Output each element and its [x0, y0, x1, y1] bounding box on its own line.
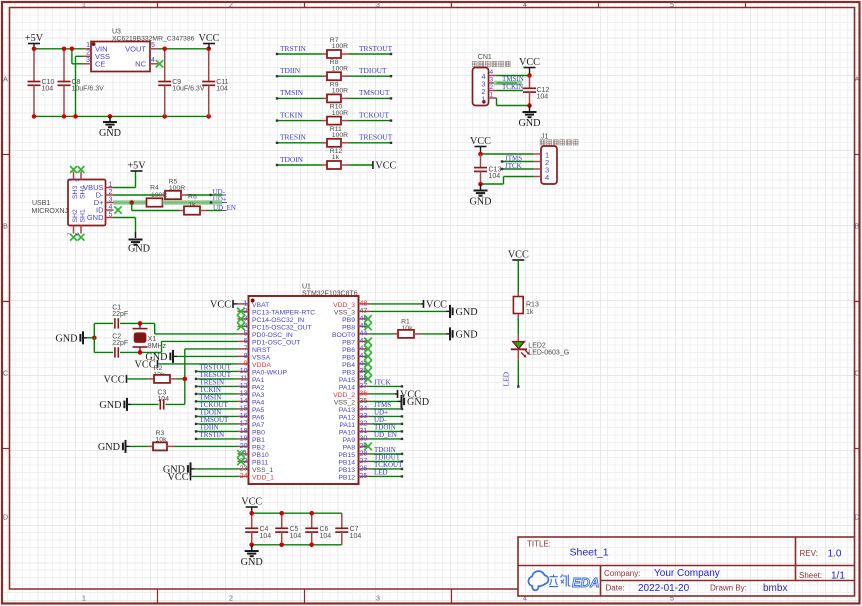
- svg-text:TDIOUT: TDIOUT: [359, 66, 387, 75]
- svg-text:PB8: PB8: [342, 324, 355, 331]
- U1 pin 20 PB2: [238, 445, 249, 447]
- svg-text:VCC: VCC: [241, 496, 262, 507]
- svg-text:VBAT: VBAT: [252, 302, 269, 309]
- node junctions top rail: [32, 47, 37, 52]
- svg-text:PA11: PA11: [339, 422, 355, 429]
- svg-text:17: 17: [240, 421, 248, 428]
- capacitor C9: [164, 49, 166, 82]
- svg-text:LED-0603_G: LED-0603_G: [528, 350, 569, 357]
- svg-text:32: 32: [360, 421, 368, 428]
- svg-text:VCC: VCC: [210, 299, 231, 310]
- svg-text:PB9: PB9: [342, 317, 355, 324]
- svg-text:44: 44: [360, 331, 368, 338]
- svg-text:1: 1: [481, 94, 485, 103]
- svg-text:VCC: VCC: [470, 136, 491, 147]
- svg-text:R6: R6: [188, 193, 197, 200]
- svg-text:8: 8: [244, 353, 248, 360]
- U1 pin 24 VDD_1: [238, 475, 249, 477]
- svg-text:10uF/6.3V: 10uF/6.3V: [72, 86, 105, 93]
- svg-text:VDD_3: VDD_3: [333, 302, 355, 309]
- svg-text:GND: GND: [518, 118, 540, 129]
- svg-text:VSSA: VSSA: [252, 354, 271, 361]
- U1 pin 22 PB11: [238, 460, 249, 462]
- svg-text:16: 16: [240, 413, 248, 420]
- capacitor C10: [33, 49, 35, 82]
- svg-text:SH1: SH1: [80, 209, 87, 222]
- power flag VCC (VDD_2): [370, 393, 396, 395]
- svg-text:GND: GND: [99, 128, 121, 139]
- wire net UD-: [213, 194, 227, 196]
- svg-text:PA7: PA7: [252, 422, 265, 429]
- svg-text:TRSTIN: TRSTIN: [200, 431, 225, 439]
- svg-text:4: 4: [523, 2, 527, 9]
- U1 pin 46 PB9: [359, 318, 370, 320]
- svg-text:8MHz: 8MHz: [148, 343, 167, 350]
- power flag VCC (VDDA): [159, 363, 238, 365]
- U1 pin 11 PA1: [238, 378, 249, 380]
- USB1 pin 3 D+: [106, 202, 114, 204]
- svg-text:TITLE:: TITLE:: [527, 540, 551, 549]
- U3 pin 3 CE: [83, 63, 91, 65]
- wire CE tie to VIN: [71, 49, 73, 64]
- J1 pin 4: [533, 176, 541, 178]
- CN1 pin 1: [489, 97, 497, 99]
- svg-text:3: 3: [109, 197, 113, 204]
- svg-text:PA5: PA5: [252, 407, 265, 414]
- svg-text:20: 20: [240, 443, 248, 450]
- svg-text:PB14: PB14: [338, 459, 355, 466]
- svg-text:GND: GND: [98, 442, 120, 453]
- wire +5V rail: [34, 48, 83, 50]
- U1 pin 18 PB0: [238, 430, 249, 432]
- U3 pin 1 VIN: [83, 48, 91, 50]
- svg-text:1: 1: [82, 2, 86, 9]
- wire J1 pin4 to ground rail: [504, 176, 534, 178]
- svg-text:10uF/6.3V: 10uF/6.3V: [172, 86, 205, 93]
- svg-text:VSS_3: VSS_3: [334, 309, 355, 316]
- svg-text:22pF: 22pF: [112, 340, 128, 347]
- svg-text:Date:: Date:: [606, 584, 625, 593]
- svg-text:PA9: PA9: [343, 437, 356, 444]
- wire R13 to LED2: [517, 318, 519, 334]
- svg-text:GND: GND: [407, 397, 429, 408]
- svg-text:GND: GND: [456, 307, 478, 318]
- svg-text:PB5: PB5: [342, 354, 355, 361]
- wire OSC_OUT to pin 6: [161, 341, 163, 352]
- svg-text:PA14: PA14: [339, 384, 355, 391]
- wire crystal bottom row: [94, 351, 161, 353]
- ground flag (BOOT0 pulldown): [446, 333, 450, 335]
- wire net D-: [114, 194, 161, 196]
- U1 pin 8 VSSA: [238, 355, 249, 357]
- svg-text:104: 104: [260, 533, 272, 540]
- capacitor C13: [480, 154, 482, 168]
- svg-text:2022-01-20: 2022-01-20: [638, 583, 690, 594]
- U1 pin 44 BOOT0: [359, 333, 370, 335]
- svg-text:104: 104: [216, 86, 228, 93]
- svg-text:LED2: LED2: [528, 342, 546, 349]
- svg-text:15: 15: [240, 406, 248, 413]
- svg-text:7: 7: [244, 346, 248, 353]
- svg-text:2: 2: [229, 596, 233, 603]
- wire VOUT rail: [158, 48, 209, 50]
- capacitor C4: [251, 513, 253, 528]
- svg-text:VCC: VCC: [426, 299, 447, 310]
- svg-text:PA13: PA13: [339, 407, 355, 414]
- svg-text:U3: U3: [112, 29, 121, 36]
- svg-text:U1: U1: [302, 283, 311, 290]
- svg-text:VDD_2: VDD_2: [333, 392, 355, 399]
- svg-text:1: 1: [109, 182, 113, 189]
- svg-text:TMSOUT: TMSOUT: [359, 88, 390, 97]
- svg-text:B: B: [3, 224, 8, 231]
- ground symbol (CN1): [529, 106, 531, 113]
- U1 pin 43 PB7: [359, 340, 370, 342]
- USB1 pin 5 GND: [106, 217, 114, 219]
- svg-text:Sheet:: Sheet:: [799, 571, 822, 580]
- capacitor C5: [281, 513, 283, 528]
- svg-text:12: 12: [240, 383, 248, 390]
- svg-text:4: 4: [490, 69, 494, 76]
- power flag VCC (R12): [349, 164, 372, 166]
- svg-text:1: 1: [82, 596, 86, 603]
- svg-text:USB1: USB1: [32, 200, 50, 207]
- svg-text:3: 3: [86, 57, 90, 64]
- svg-text:PA15: PA15: [339, 377, 355, 384]
- svg-text:VCC: VCC: [508, 249, 529, 260]
- ground symbol (cap bank): [251, 545, 253, 551]
- wire net TMSIN (highlighted): [494, 81, 522, 86]
- svg-text:1: 1: [490, 91, 494, 98]
- U1 pin 32 PA11: [359, 423, 370, 425]
- svg-text:Drawn By:: Drawn By:: [710, 584, 747, 593]
- wire VIN bottom rail (GND): [34, 115, 209, 117]
- svg-text:PA2: PA2: [252, 384, 265, 391]
- U1 pin 40 PB4: [359, 363, 370, 365]
- USB1 shell pins 8,9 (top, no-connect): [73, 172, 75, 180]
- ground flag (VSS_3): [370, 310, 447, 312]
- svg-text:3: 3: [490, 76, 494, 83]
- svg-text:3: 3: [376, 2, 380, 9]
- svg-text:26: 26: [360, 466, 368, 473]
- svg-text:A: A: [3, 77, 8, 84]
- svg-text:5: 5: [244, 331, 248, 338]
- svg-text:18: 18: [240, 428, 248, 435]
- svg-text:104: 104: [290, 533, 302, 540]
- svg-text:VCC: VCC: [375, 160, 396, 171]
- svg-text:GND: GND: [456, 330, 478, 341]
- svg-text:104: 104: [489, 173, 501, 180]
- svg-text:PA1: PA1: [252, 377, 265, 384]
- svg-text:PA8: PA8: [343, 444, 356, 451]
- title block: [518, 537, 855, 596]
- svg-text:2: 2: [490, 84, 494, 91]
- wire net D+ (highlighted): [114, 200, 147, 205]
- svg-text:C: C: [854, 371, 859, 378]
- U1 pin 13 PA3: [238, 393, 249, 395]
- U1 pin 34 PA13: [359, 408, 370, 410]
- svg-text:31: 31: [360, 428, 368, 435]
- svg-text:PB15: PB15: [338, 452, 355, 459]
- U1 pin 42 PB6: [359, 348, 370, 350]
- wire VCC rail: [252, 512, 342, 514]
- CN1 pin 3: [489, 82, 497, 84]
- svg-text:9: 9: [75, 179, 81, 182]
- U1 pin 39 PB3: [359, 370, 370, 372]
- svg-text:PA10: PA10: [339, 429, 355, 436]
- U1 pin 41 PB5: [359, 355, 370, 357]
- no-connect marks U1 left: [237, 308, 245, 316]
- svg-text:VSS_2: VSS_2: [334, 399, 355, 406]
- svg-text:MICROXNJ: MICROXNJ: [32, 208, 69, 215]
- no-connect marks U1 right: [364, 315, 372, 323]
- svg-text:TCKIN: TCKIN: [280, 110, 303, 119]
- svg-text:PA4: PA4: [252, 399, 265, 406]
- svg-text:Company:: Company:: [604, 569, 640, 578]
- USB1 pin 2 D-: [106, 194, 114, 196]
- wire VCC to J1 pin1: [481, 153, 534, 155]
- svg-text:PB6: PB6: [342, 347, 355, 354]
- U3 pin 4 NC: [150, 63, 158, 65]
- U3 pin 2 VSS: [83, 55, 91, 57]
- node junctions cap bank: [249, 511, 254, 516]
- svg-text:PA6: PA6: [252, 414, 265, 421]
- svg-text:4: 4: [545, 173, 549, 182]
- svg-text:35: 35: [360, 398, 368, 405]
- wire GND rail: [252, 544, 342, 546]
- svg-text:23: 23: [240, 466, 248, 473]
- crystal circuit: ground flag: [87, 337, 94, 339]
- svg-text:PA3: PA3: [252, 392, 265, 399]
- ground symbol (U3 block): [109, 116, 111, 122]
- wire VSS to ground rail: [76, 55, 84, 57]
- svg-text:34: 34: [360, 406, 368, 413]
- svg-text:D: D: [854, 515, 859, 522]
- svg-text:104: 104: [537, 94, 549, 101]
- U1 pin 5 PD0-OSC_IN: [238, 333, 249, 335]
- svg-text:VCC: VCC: [199, 33, 220, 44]
- USB1 pin 4 ID: [106, 209, 114, 211]
- svg-text:TDIIN: TDIIN: [280, 66, 301, 75]
- U1 pin 2 PC13-TAMPER-RTC: [238, 310, 249, 312]
- svg-text:104: 104: [320, 533, 332, 540]
- svg-text:14: 14: [240, 398, 248, 405]
- svg-text:LED: LED: [502, 371, 511, 386]
- svg-text:Sheet_1: Sheet_1: [570, 547, 609, 559]
- svg-text:TDOIN: TDOIN: [280, 155, 304, 164]
- U1 pin 48 VDD_3: [359, 303, 370, 305]
- svg-text:TRSTOUT: TRSTOUT: [359, 44, 393, 53]
- power flag VCC (VDD_1): [192, 475, 238, 477]
- ground symbol (USB): [135, 232, 137, 238]
- U3 pin 5 VOUT: [150, 48, 158, 50]
- U1 pin 4 PC15-OSC32_OUT: [238, 325, 249, 327]
- svg-text:+5V: +5V: [127, 160, 146, 171]
- svg-text:NRST: NRST: [252, 347, 271, 354]
- U1 pin 35 VSS_2: [359, 400, 370, 402]
- U1 pin 30 PA9: [359, 438, 370, 440]
- U1 pin 38 PA15: [359, 378, 370, 380]
- svg-text:19: 19: [240, 436, 248, 443]
- svg-text:BOOT0: BOOT0: [332, 332, 355, 339]
- ground symbol (J1): [480, 184, 482, 191]
- U1 pin 15 PA5: [238, 408, 249, 410]
- svg-text:PB4: PB4: [342, 362, 355, 369]
- U1 pin 21 PB10: [238, 453, 249, 455]
- svg-text:4: 4: [151, 57, 155, 64]
- svg-text:TRESIN: TRESIN: [280, 133, 307, 142]
- U1 pin 16 PA6: [238, 415, 249, 417]
- svg-text:VDDA: VDDA: [252, 362, 271, 369]
- svg-text:2: 2: [229, 2, 233, 9]
- svg-text:GND: GND: [55, 333, 77, 344]
- wire VBUS to +5V: [114, 187, 136, 189]
- power flag VCC (VDD_3): [370, 303, 422, 305]
- svg-text:22pF: 22pF: [112, 311, 128, 318]
- svg-text:VCC: VCC: [104, 374, 125, 385]
- svg-text:UD_EN: UD_EN: [374, 431, 397, 439]
- svg-text:PB12: PB12: [338, 474, 355, 481]
- svg-text:27: 27: [360, 458, 368, 465]
- svg-text:PD1-OSC_OUT: PD1-OSC_OUT: [252, 339, 300, 346]
- svg-text:GND: GND: [87, 213, 104, 222]
- wire VCC to R13: [517, 260, 519, 292]
- svg-text:9: 9: [244, 361, 248, 368]
- svg-text:48: 48: [360, 301, 368, 308]
- CN1 pin 2: [489, 90, 497, 92]
- svg-text:REV:: REV:: [800, 549, 818, 558]
- USB1 shell pins 7,6 (bottom, no-connect): [73, 226, 75, 234]
- svg-text:VOUT: VOUT: [125, 45, 146, 54]
- no-connect ID pin: [114, 206, 121, 213]
- svg-text:28: 28: [360, 451, 368, 458]
- U1 pin 29 PA8: [359, 445, 370, 447]
- svg-text:1: 1: [244, 301, 248, 308]
- U1 pin 10 PA0-WKUP: [238, 370, 249, 372]
- ground flag (VSS_2): [370, 400, 398, 402]
- svg-text:PB1: PB1: [252, 437, 265, 444]
- svg-text:PD0-OSC_IN: PD0-OSC_IN: [252, 332, 293, 339]
- EasyEDA logo: [528, 571, 548, 590]
- wire CN1 pin4 to VCC: [497, 75, 530, 77]
- svg-text:TRSTIN: TRSTIN: [280, 44, 307, 53]
- svg-text:TMSIN: TMSIN: [280, 88, 304, 97]
- svg-text:R13: R13: [526, 302, 539, 309]
- wire USB GND: [114, 217, 136, 219]
- U1 pin 1 VBAT: [238, 303, 249, 305]
- svg-text:bmbx: bmbx: [763, 583, 787, 594]
- U1 pin 17 PA7: [238, 423, 249, 425]
- capacitor C11: [208, 49, 210, 82]
- svg-text:SH2: SH2: [72, 209, 79, 222]
- svg-text:TCKOUT: TCKOUT: [359, 110, 389, 119]
- svg-text:GND: GND: [469, 197, 491, 208]
- CN1 pin 4: [489, 75, 497, 77]
- svg-text:NC: NC: [135, 60, 146, 69]
- svg-text:SH3: SH3: [72, 186, 79, 199]
- USB1 pin 1 VBUS: [106, 187, 114, 189]
- svg-text:6: 6: [244, 338, 248, 345]
- svg-text:VCC: VCC: [135, 359, 156, 370]
- svg-text:104: 104: [350, 533, 362, 540]
- J1 pin 3: [533, 168, 541, 170]
- svg-text:VCC: VCC: [168, 472, 189, 483]
- svg-text:D: D: [3, 515, 8, 522]
- svg-text:TRESOUT: TRESOUT: [359, 133, 393, 142]
- svg-text:Your Company: Your Company: [654, 568, 720, 579]
- svg-text:PA12: PA12: [339, 414, 355, 421]
- ground flag (VSS_1): [195, 468, 238, 470]
- U1 pin 25 PB12: [359, 475, 370, 477]
- ground flag (VSSA): [177, 355, 238, 357]
- wire CN1 pin1 to ground: [496, 98, 498, 106]
- svg-text:PC14-OSC32_IN: PC14-OSC32_IN: [252, 317, 304, 324]
- svg-text:4: 4: [109, 204, 113, 211]
- capacitor C7: [341, 513, 343, 528]
- svg-text:JTCK: JTCK: [374, 379, 391, 387]
- U1 pin 14 PA4: [238, 400, 249, 402]
- svg-text:B: B: [855, 224, 860, 231]
- svg-text:+5V: +5V: [25, 33, 44, 44]
- svg-text:CN1: CN1: [478, 54, 492, 61]
- svg-text:6: 6: [75, 233, 81, 236]
- svg-text:8: 8: [68, 179, 74, 182]
- svg-text:PB3: PB3: [342, 369, 355, 376]
- svg-text:PB11: PB11: [252, 459, 268, 466]
- svg-text:13: 13: [240, 391, 248, 398]
- svg-text:1.0: 1.0: [828, 549, 842, 560]
- svg-text:25: 25: [360, 473, 368, 480]
- U1 pin 45 PB8: [359, 325, 370, 327]
- svg-text:30: 30: [360, 436, 368, 443]
- svg-text:TCKIN: TCKIN: [502, 83, 523, 91]
- svg-text:PC15-OSC32_OUT: PC15-OSC32_OUT: [252, 324, 312, 331]
- svg-text:PB13: PB13: [338, 467, 355, 474]
- U1 pin 37 PA14: [359, 385, 370, 387]
- svg-text:A: A: [855, 77, 860, 84]
- svg-text:104: 104: [42, 86, 54, 93]
- wire crystal left leg: [93, 323, 95, 352]
- U1 pin 47 VSS_3: [359, 310, 370, 312]
- svg-text:37: 37: [360, 383, 368, 390]
- svg-text:24: 24: [240, 473, 248, 480]
- U1 pin 36 VDD_2: [359, 393, 370, 395]
- svg-text:CE: CE: [95, 60, 105, 69]
- U1 pin 9 VDDA: [238, 363, 249, 365]
- svg-text:GND: GND: [99, 400, 121, 411]
- svg-text:PB7: PB7: [342, 339, 355, 346]
- svg-text:1: 1: [86, 42, 90, 49]
- svg-text:C: C: [3, 371, 8, 378]
- wire D+ to R6: [131, 203, 133, 211]
- wire NRST net: [185, 348, 238, 350]
- U1 pin 31 PA10: [359, 430, 370, 432]
- power flag VCC (VBAT): [233, 303, 238, 305]
- svg-text:3: 3: [376, 596, 380, 603]
- U1 pin 33 PA12: [359, 415, 370, 417]
- U1 pin 7 NRST: [238, 348, 249, 350]
- U1 pin 6 PD1-OSC_OUT: [238, 340, 249, 342]
- J1 pin 1: [533, 153, 541, 155]
- svg-text:VCC: VCC: [519, 57, 540, 68]
- svg-text:R4: R4: [150, 184, 159, 191]
- svg-text:11: 11: [240, 376, 247, 383]
- svg-text:5: 5: [151, 42, 155, 49]
- U1 pin 26 PB13: [359, 468, 370, 470]
- svg-text:5: 5: [109, 212, 113, 219]
- svg-text:VSS_1: VSS_1: [252, 467, 273, 474]
- svg-text:PC13-TAMPER-RTC: PC13-TAMPER-RTC: [252, 309, 315, 316]
